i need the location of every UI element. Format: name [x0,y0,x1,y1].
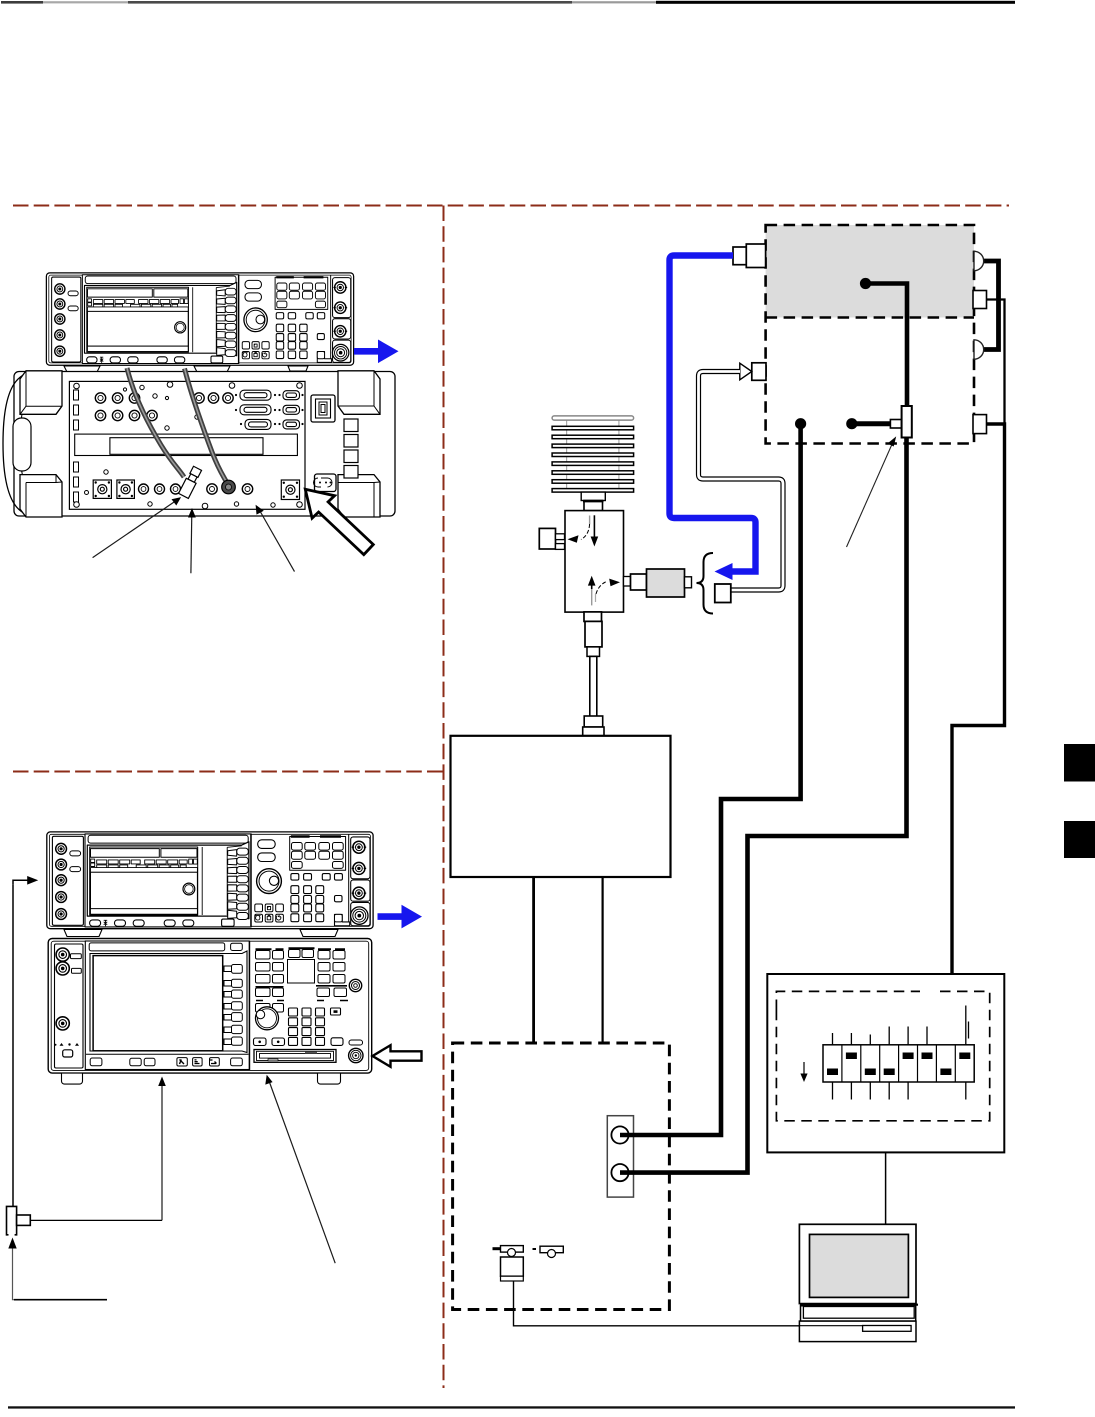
AC power inlet [315,474,337,492]
node dot in gray section with cable to adapter [860,278,871,289]
change bar 1 [1064,744,1095,782]
left connector column [55,944,84,1068]
gray cable (white cable w/ outline) [699,372,784,591]
key cluster 5 (lower-right) [317,988,347,997]
directional coupler block [565,511,624,612]
D-sub connectors [240,390,300,429]
sensor tube [590,656,597,716]
small connector into adapter [890,420,901,429]
antenna fixture 2 [533,1246,564,1257]
screen [90,951,247,1053]
coupler right port to attenuator [624,577,631,587]
cable conn4 to DIP switch box [952,424,1005,975]
cable from conn2 down right side [987,300,1005,425]
feet between siggen2 and PSA [64,930,338,937]
rear unit body [14,372,395,517]
feed-through circle 2 [611,1164,628,1181]
feet between siggen1 and rear unit [64,366,308,372]
square connector 4 right [973,415,987,434]
spectrum analyzer (PSA) [48,939,372,1074]
annotation line 2 (vertical) [190,513,193,573]
middle BNC row 2 [194,393,233,403]
small down arrow [803,1062,805,1076]
key cluster 2 + central pad [288,950,315,984]
key cluster 4 (lower-left) [256,988,284,1012]
up arrow at GPIB [8,1238,16,1249]
blue cable [670,256,756,572]
line voltage module [311,395,335,422]
node dot lower-mid with cable to adapter [846,418,857,429]
blue arrow 1 [354,340,399,364]
header rule [1,1,1015,4]
right key section [249,942,251,1071]
line fixture to laptop [514,1281,800,1326]
laptop [799,1224,918,1341]
UUT dashed box outline [766,225,974,444]
UUT dashed box gray top section [766,225,974,318]
power sensor box [451,736,671,877]
blue arrowhead [715,563,733,580]
horizontal dashed divider top [13,205,1009,207]
bail handle left [3,374,26,514]
recessed handle bar [75,434,298,455]
node dot lower-left [795,418,806,429]
screws lower [74,470,303,509]
UUT divider dashed line [766,316,974,319]
vertical dashed divider [443,206,445,1389]
signal generator 2 (front panel) [47,832,373,929]
upper BNC connectors [95,393,157,421]
coupler bottom flow marks [591,589,593,605]
heatsink neck [581,492,605,500]
DIP switch box [767,974,1004,1152]
blue cable plug at UUT input [733,247,746,265]
gray cable 2 (curved) [185,369,227,483]
horizontal dashed divider left-middle [13,771,443,773]
antenna fixture 1 [493,1246,524,1281]
screws upper [74,382,303,443]
card cage slots left edge [74,390,79,502]
coupler bottom neck to sensor [584,612,602,622]
key cluster 3 [318,951,345,984]
PSA feet [62,1073,341,1084]
annotation diagonal line from PSA right [269,1080,336,1264]
big outline arrow (up-left) [305,489,373,554]
feed-through circle 1 [611,1126,628,1143]
footer rule [8,1406,1015,1408]
softkeys right of screen [224,965,242,1046]
coupler left port connector [539,528,555,549]
lines from sensor box to screen room [532,877,535,1044]
BNC right [349,979,361,991]
feed-through panel [607,1116,633,1197]
adapter (vertical white connector) [902,406,912,438]
key cluster 1 [256,951,284,984]
DIP inner dashed box [776,991,989,1120]
switch actuators [827,1053,970,1076]
white outline arrow pointing left at PSA [373,1045,422,1067]
annotation line 3 (diagonal) [259,509,295,572]
annotation line 1 (diagonal to adapter) [93,500,177,558]
signal generator 1 (front panel, top-left) [46,273,353,365]
gray cable 1 (curved) [127,368,184,477]
section divider dashed lines (brown) [13,206,1009,1389]
switch leads [833,1006,969,1100]
heatsink load [552,416,634,492]
annotation pointer to adapter [847,442,894,548]
numeric pad [254,1008,344,1046]
inner rear panel [69,381,305,509]
cable B: adapter to feed-through 2 [620,438,907,1173]
knob [256,1007,279,1030]
gray cable connector at UUT (arrow into square) [752,363,766,381]
right accessory column [344,419,358,478]
screen room dashed box [453,1043,670,1310]
left arrow into siggen2 [12,884,14,1206]
square connector 2 right [973,291,987,309]
bulb connector 3 right [974,340,984,359]
bulb connector top right [974,251,984,270]
cable 1 plug [179,466,203,499]
coupler top flow marks [589,516,591,525]
gray cable connector square at attenuator [715,584,731,603]
rack feet corners [20,371,380,517]
blue arrow 2 [378,905,423,929]
brace [697,553,714,614]
change bar 2 [1064,821,1095,858]
thick cable loop on right (output to input) [982,261,999,350]
floppy drive [254,1050,336,1063]
attenuator (gray) [647,569,685,597]
cable A: UUT dot to feed-through 1 [620,424,801,1135]
annotation vertical line from PSA [161,1082,163,1220]
line from GPIB to annotation [30,1219,162,1221]
RF input BNC [349,1040,363,1045]
lower connector row [93,480,299,500]
GPIB connector symbol bottom-left [7,1206,17,1234]
bottom row [86,1053,249,1055]
display module [85,941,249,1070]
DIP box to laptop line [885,1152,887,1224]
DIP switch bank [800,1006,974,1100]
